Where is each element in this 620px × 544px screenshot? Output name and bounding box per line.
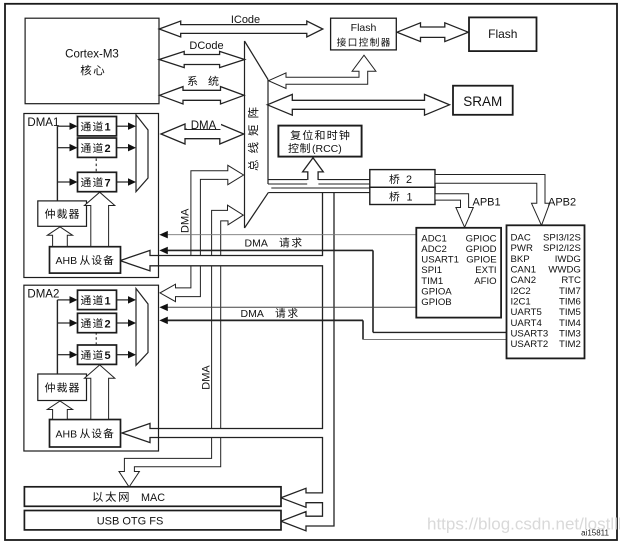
svg-text:GPIOA: GPIOA — [421, 287, 452, 298]
DMA request line: APB2 peripherals to DMA1 — [166, 249, 373, 251]
branch wire to 通道5 — [57, 354, 70, 356]
wire 通道1 to funnel — [117, 125, 129, 127]
bridge 1 box — [370, 187, 435, 204]
svg-text:1: 1 — [407, 191, 413, 203]
arrow AHB slave up to arbiter — [47, 401, 72, 419]
wire 通道2 to funnel — [117, 322, 129, 324]
channel box 通道5 — [78, 345, 117, 364]
svg-text:EXTI: EXTI — [475, 265, 496, 276]
svg-text:ICode: ICode — [231, 14, 260, 26]
svg-text:7: 7 — [105, 177, 111, 189]
svg-text:DAC: DAC — [511, 233, 531, 244]
label 接口控制器 — [337, 38, 346, 47]
svg-text:Flash: Flash — [488, 27, 517, 41]
bus channel: bridge/bus-matrix vertical trunk feeding DMA1 AHB slave, DMA2 AHB slave, Ethernet MAC and USB OTG FS — [120, 193, 334, 531]
label 系统 — [188, 76, 198, 86]
DMA1 block box — [24, 114, 159, 278]
svg-text:PWR: PWR — [511, 243, 533, 254]
trunk wire from arbiter to channels — [56, 300, 58, 374]
svg-text:APB2: APB2 — [548, 197, 576, 209]
branch wire to 通道2 — [57, 147, 70, 149]
wire 通道1 to funnel — [117, 299, 129, 301]
channel: bridge2 to APB2 with down arrowhead — [435, 175, 550, 226]
APB2 peripherals box — [507, 225, 585, 358]
label DMA (DMA1 bus) — [187, 120, 221, 130]
Ethernet MAC box 以太网 MAC — [24, 487, 281, 507]
svg-text:WWDG: WWDG — [548, 265, 581, 276]
svg-text:AHB: AHB — [56, 255, 78, 267]
svg-text:DMA: DMA — [191, 120, 217, 132]
system bus double arrow — [160, 87, 245, 104]
funnel (request merge) shape — [136, 115, 148, 192]
svg-text:TIM2: TIM2 — [559, 339, 581, 350]
svg-text:GPIOD: GPIOD — [466, 244, 497, 255]
DCode bus double arrow — [159, 51, 244, 67]
DMA request line: APB2 peripherals to DMA2 — [166, 319, 363, 321]
arbiter box 仲裁器 — [38, 201, 87, 226]
channel: bridge1 to APB1 with down arrowhead — [435, 194, 473, 228]
Cortex-M3 core box — [25, 18, 159, 104]
channel box 通道7 — [78, 172, 117, 191]
dashed ellipsis between channels — [95, 332, 97, 344]
svg-text:SPI3/I2S: SPI3/I2S — [543, 233, 581, 244]
svg-text:APB1: APB1 — [473, 196, 501, 208]
svg-text:TIM1: TIM1 — [421, 276, 443, 287]
bus channel: bus matrix to bridge2 (two-wall wire) — [268, 179, 370, 181]
svg-text:DMA: DMA — [179, 208, 191, 233]
svg-text:CAN1: CAN1 — [511, 265, 537, 276]
DMA request line: APB1 peripherals to DMA1 (thin) — [166, 234, 416, 236]
dashed ellipsis between channels — [95, 159, 97, 172]
Flash interface to Flash double arrow — [397, 23, 468, 42]
trunk wire from arbiter to channels — [56, 126, 58, 201]
svg-text:DCode: DCode — [189, 40, 223, 52]
arrow AHB slave up to arbiter — [47, 227, 72, 247]
svg-text:UART4: UART4 — [511, 318, 543, 329]
SRAM box — [453, 86, 513, 115]
svg-text:2: 2 — [406, 174, 412, 186]
svg-text:2: 2 — [105, 143, 111, 155]
svg-text:TIM7: TIM7 — [559, 286, 581, 297]
label 桥 1 — [389, 191, 399, 201]
svg-text:SPI1: SPI1 — [421, 265, 442, 276]
AHB slave box AHB从设备 — [50, 420, 121, 448]
bus channel: bus matrix to Flash interface controller (ICode/DCode path) — [269, 55, 376, 88]
svg-text:Cortex-M3: Cortex-M3 — [65, 49, 119, 61]
DMA1 bus double arrow — [161, 124, 244, 144]
SRAM double arrow — [267, 94, 449, 115]
bus channel: bus matrix to Ethernet MAC (AHB system bus), with arrowhead into bus matrix and into MAC top — [119, 205, 243, 487]
svg-text:TIM4: TIM4 — [559, 318, 582, 329]
arbiter box 仲裁器 — [38, 374, 87, 401]
USB OTG FS box — [24, 511, 281, 530]
label 核心 — [81, 65, 92, 76]
bridge 2 box — [370, 170, 435, 188]
svg-text:ADC2: ADC2 — [421, 244, 447, 255]
svg-text:AHB: AHB — [56, 428, 78, 440]
svg-text:USART3: USART3 — [511, 328, 549, 339]
ICode bus double arrow — [159, 21, 323, 37]
Flash box — [469, 17, 537, 51]
svg-text:GPIOB: GPIOB — [421, 297, 451, 308]
bus channel: bus matrix to DMA2 funnel (DMA2 master port), double-headed — [160, 165, 244, 301]
svg-text:RTC: RTC — [561, 275, 581, 286]
svg-text:ai15811: ai15811 — [581, 529, 609, 538]
svg-text:I2C1: I2C1 — [511, 297, 531, 308]
channel box 通道1 — [78, 290, 117, 309]
label 桥 2 — [389, 174, 399, 184]
svg-text:DMA2: DMA2 — [27, 289, 59, 301]
svg-text:1: 1 — [105, 295, 111, 307]
DMA2 block box — [24, 285, 159, 451]
svg-text:2: 2 — [105, 318, 111, 330]
svg-text:CAN2: CAN2 — [511, 275, 537, 286]
svg-text:I2C2: I2C2 — [511, 286, 531, 297]
funnel (request merge) shape — [136, 289, 148, 366]
branch wire to 通道2 — [57, 322, 70, 324]
svg-text:5: 5 — [105, 350, 111, 362]
arrow: AHB/APB wire up into RCC — [307, 170, 318, 185]
svg-text:Flash: Flash — [351, 22, 377, 34]
svg-text:TIM3: TIM3 — [559, 328, 581, 339]
svg-text:GPIOE: GPIOE — [466, 255, 496, 266]
svg-text:DMA: DMA — [200, 365, 212, 390]
channel box 通道2 — [78, 138, 117, 157]
vertical label DMA (system bus to MAC) — [200, 365, 212, 390]
svg-text:SPI2/I2S: SPI2/I2S — [543, 243, 581, 254]
svg-text:1: 1 — [105, 122, 111, 134]
svg-text:ADC1: ADC1 — [421, 233, 447, 244]
Flash interface controller box — [331, 18, 397, 50]
svg-text:TIM6: TIM6 — [559, 297, 581, 308]
vertical label DMA (DMA2 bus) — [179, 208, 191, 233]
bus channel: bus matrix to bridge1 (two-wall wire) — [271, 187, 370, 189]
svg-text:SRAM: SRAM — [463, 94, 502, 109]
svg-text:UART5: UART5 — [511, 307, 542, 318]
svg-text:DMA: DMA — [241, 308, 264, 320]
wire 通道2 to funnel — [117, 147, 129, 149]
svg-text:(RCC): (RCC) — [312, 143, 342, 155]
svg-text:USB OTG FS: USB OTG FS — [97, 515, 164, 527]
bus matrix (trapezoid) — [244, 41, 246, 228]
svg-text:TIM5: TIM5 — [559, 307, 581, 318]
wire 通道5 to funnel — [117, 354, 129, 356]
channel box 通道2 — [78, 313, 117, 332]
svg-text:USART1: USART1 — [421, 255, 459, 266]
bus matrix vertical label 总线矩阵 — [248, 107, 259, 170]
wire 通道7 to funnel — [117, 181, 129, 183]
svg-text:BKP: BKP — [511, 254, 530, 265]
channel box 通道1 — [78, 117, 117, 136]
svg-text:MAC: MAC — [141, 492, 165, 504]
APB1 peripherals box — [416, 228, 501, 318]
svg-text:GPIOC: GPIOC — [466, 233, 497, 244]
label ICode — [226, 13, 265, 24]
svg-text:AFIO: AFIO — [474, 276, 496, 287]
branch wire to 通道1 — [57, 299, 70, 301]
DMA request line: APB1 peripherals to DMA2 (thin) — [166, 306, 416, 308]
svg-text:USART2: USART2 — [511, 339, 549, 350]
svg-text:DMA: DMA — [245, 237, 268, 249]
branch wire to 通道1 — [57, 125, 70, 127]
wide arrow AHB slave up to channels — [84, 192, 114, 246]
RCC box 复位和时钟控制 — [278, 126, 361, 157]
wide arrow AHB slave up to channels — [84, 365, 114, 419]
branch wire to 通道7 — [57, 181, 70, 183]
svg-text:DMA1: DMA1 — [27, 117, 59, 129]
AHB slave box AHB从设备 — [50, 247, 121, 273]
svg-text:IWDG: IWDG — [555, 254, 581, 265]
